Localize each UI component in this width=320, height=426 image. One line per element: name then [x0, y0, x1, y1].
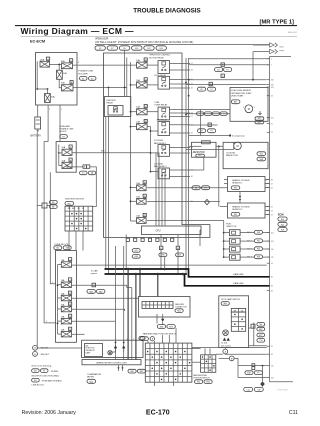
- fuse 10A 51: [136, 58, 147, 68]
- sq 15: [221, 63, 224, 67]
- svg-text:FUSE AND: FUSE AND: [60, 125, 71, 128]
- connector F22: [140, 337, 148, 341]
- label FUEL PUMP RELAY: [155, 102, 168, 107]
- wire ign feed down: [90, 167, 97, 207]
- injector feed stubs: [224, 233, 230, 258]
- svg-text:106: 106: [271, 377, 274, 379]
- svg-text:108: 108: [271, 80, 274, 82]
- svg-text:58: 58: [145, 121, 147, 123]
- E4 block outline: [56, 142, 76, 173]
- svg-text:105: 105: [271, 117, 274, 119]
- svg-text:F7: F7: [211, 89, 213, 91]
- stop lamp bulb: [223, 330, 229, 336]
- svg-text:OFF: OFF: [68, 208, 71, 210]
- stop lamp switch box: [219, 296, 249, 348]
- svg-text:IGNITION SWITCH: IGNITION SWITCH: [65, 199, 84, 201]
- fusible link 140A A: [40, 57, 50, 67]
- svg-text:B45: B45: [234, 102, 237, 104]
- svg-text:14: 14: [69, 293, 71, 295]
- connector E1: [80, 77, 88, 81]
- cooling fan motor symbol: [234, 142, 242, 150]
- svg-text:F1: F1: [43, 370, 45, 372]
- wire cpu drop a: [125, 235, 127, 270]
- svg-text:HEATED OXYGEN: HEATED OXYGEN: [232, 179, 250, 182]
- wire fuel pump out: [170, 110, 191, 117]
- ipdm inner trunk: [186, 58, 189, 274]
- svg-text:To compressor: To compressor: [232, 136, 245, 138]
- svg-text:6: 6: [70, 259, 71, 261]
- wire fuse35 out: [147, 201, 220, 203]
- wire ecm relay in: [147, 84, 158, 86]
- note with A/T: [33, 345, 50, 350]
- ecm relay: [158, 76, 170, 89]
- fuse 10A 57: [136, 105, 147, 115]
- injector feed rail: [223, 221, 225, 258]
- connector 1C: [80, 171, 88, 175]
- resistor box: [192, 142, 217, 157]
- connector B25 B27: [255, 117, 264, 124]
- cpu box: [142, 226, 202, 235]
- connector pair C21 C38: [244, 387, 264, 391]
- label RESISTOR: [193, 152, 205, 154]
- fuse block outline: [56, 251, 77, 343]
- svg-text:54: 54: [271, 210, 273, 212]
- label Next page: [280, 46, 285, 52]
- wire resistor feed: [189, 145, 202, 147]
- throttle control motor relay: [158, 61, 170, 74]
- label NO.2: [247, 241, 251, 243]
- ecm pin ticks: [267, 59, 270, 378]
- svg-text:(INTELLIGENT POWER DISTRIBUTIO: (INTELLIGENT POWER DISTRIBUTION MODULE E…: [95, 40, 193, 44]
- connector F32: [254, 247, 262, 251]
- svg-text:J: J: [70, 147, 71, 149]
- note with M/T: [33, 352, 50, 357]
- svg-text:COMBINATION: COMBINATION: [87, 373, 102, 376]
- note e4: [32, 378, 63, 386]
- svg-text:F30: F30: [257, 232, 260, 234]
- cpu k-line joins: [164, 257, 166, 269]
- wire ho2s1 to ecm: [265, 180, 270, 188]
- svg-text:ON: ON: [77, 208, 79, 210]
- fuel pump motor: [243, 105, 255, 113]
- svg-text:Revision: 2006 January: Revision: 2006 January: [22, 410, 77, 416]
- svg-text:E38: E38: [135, 256, 138, 258]
- connector E4: [60, 135, 68, 139]
- svg-text:HOLDER: HOLDER: [79, 73, 89, 75]
- svg-text:10: 10: [222, 76, 224, 78]
- svg-text:F12: F12: [178, 255, 181, 257]
- svg-text:E9: E9: [123, 48, 125, 50]
- svg-text:To CAN: To CAN: [91, 269, 98, 272]
- label To CAN system: [91, 269, 98, 275]
- svg-text:Refer to the following.: Refer to the following.: [32, 364, 53, 367]
- ho2s1 box: [228, 177, 266, 192]
- connector F37: [231, 212, 240, 216]
- svg-text:Wiring Diagram — ECM —: Wiring Diagram — ECM —: [21, 26, 135, 36]
- svg-text:12: 12: [69, 316, 71, 318]
- wire ho2s2 to ecm: [265, 207, 270, 215]
- svg-text:ECM: ECM: [278, 213, 284, 216]
- svg-text:M63: M63: [89, 291, 93, 293]
- svg-text:C11: C11: [289, 410, 298, 416]
- svg-text:48: 48: [177, 248, 179, 250]
- svg-text:PUMP RELAY: PUMP RELAY: [155, 104, 168, 107]
- wire injector 4 out: [240, 256, 269, 258]
- label To compressor: [232, 136, 245, 138]
- pnp2 grid: [201, 355, 216, 373]
- svg-text:42: 42: [191, 133, 193, 135]
- svg-text:FUEL: FUEL: [155, 102, 161, 104]
- svg-text:46: 46: [191, 88, 193, 90]
- ecm connector E16: [278, 217, 287, 221]
- label OFF ACC ON ST: [68, 207, 84, 210]
- label FUEL LEVEL SENSOR UNIT: [231, 90, 252, 97]
- svg-text:(FUEL PUMP): (FUEL PUMP): [231, 96, 243, 98]
- svg-text:M62: M62: [259, 329, 263, 331]
- wire fuel pump feed2: [189, 109, 230, 111]
- svg-text:45: 45: [160, 248, 162, 250]
- fuse 10A [13]: [61, 302, 72, 312]
- svg-text:E5: E5: [99, 48, 101, 50]
- can drop dlc 2: [157, 274, 159, 297]
- wire battery ground rail: [37, 132, 81, 348]
- fuse 10A [6]: [61, 258, 72, 268]
- svg-text:53: 53: [271, 214, 273, 216]
- wire relay3 to resistor: [189, 157, 204, 170]
- wire out y58.7: [189, 58, 270, 60]
- label To shift lock: [221, 342, 231, 348]
- sq pair bottomright: [252, 364, 255, 370]
- wire ign relay feed 2: [126, 57, 128, 96]
- svg-text:M5: M5: [52, 206, 55, 208]
- svg-text:UNIFIED METER CONTROL UNIT: UNIFIED METER CONTROL UNIT: [96, 362, 128, 364]
- label COOLING FAN MOTOR: [226, 152, 238, 157]
- svg-text:DATA LINE: DATA LINE: [233, 273, 244, 276]
- wire holder down x60: [59, 105, 61, 142]
- ho2s link: [239, 192, 241, 204]
- svg-text:E4: E4: [62, 136, 64, 138]
- svg-text:25: 25: [271, 123, 273, 125]
- below cpu connectors b: [159, 246, 167, 256]
- relay shared feed rail: [150, 127, 158, 173]
- svg-text:: With A/T: : With A/T: [40, 347, 50, 350]
- junction fuse rail: [130, 84, 132, 202]
- fuse 15A 35: [136, 194, 146, 204]
- svg-text:M4: M4: [260, 324, 263, 326]
- fusible link 80A D: [61, 59, 73, 69]
- svg-text:POSITION SWITCH: POSITION SWITCH: [193, 377, 210, 379]
- can junction dots: [127, 268, 184, 276]
- ecm trunk top stub: [270, 56, 292, 58]
- cooling fan relay 3: [158, 168, 170, 179]
- wire compressor feed: [200, 110, 202, 136]
- svg-text:M62: M62: [99, 291, 103, 293]
- wire bottom 115: [238, 365, 267, 367]
- wire cpu drop c: [177, 235, 179, 275]
- wire stop lamp right: [249, 323, 267, 346]
- svg-text:TROUBLE DIAGNOSIS: TROUBLE DIAGNOSIS: [133, 7, 201, 14]
- wire throttle relay in: [147, 64, 158, 66]
- ignition switch drops: [69, 231, 83, 251]
- connector F40: [195, 380, 203, 384]
- svg-text:E10: E10: [135, 48, 138, 50]
- svg-text:E6: E6: [195, 188, 197, 190]
- wire cpu right: [200, 229, 201, 231]
- fuel pump ground: [258, 111, 262, 115]
- mil lamp: [108, 351, 112, 355]
- svg-text:21: 21: [127, 339, 129, 341]
- label COOLING FAN RELAY 1: [154, 140, 167, 145]
- svg-text:E4: E4: [34, 380, 36, 382]
- label IPDM E/R: [95, 36, 193, 44]
- connector M50s: [221, 302, 229, 306]
- svg-text:1: 1: [243, 107, 244, 109]
- svg-text:C21: C21: [247, 389, 250, 391]
- junction fan wire: [218, 145, 220, 147]
- label STOP LAMP SWITCH: [221, 298, 240, 301]
- wire fan out: [170, 148, 191, 177]
- junction E4 rail: [58, 152, 60, 154]
- pin 4 label: [78, 62, 79, 64]
- wire out y84.5: [186, 84, 267, 86]
- svg-text:C38: C38: [257, 389, 260, 391]
- ipdm fuse rail: [130, 62, 132, 221]
- wire 140A to 80A: [50, 63, 62, 65]
- svg-text:FUSIBLE LINK: FUSIBLE LINK: [60, 129, 74, 131]
- ipdm pin numbers: [191, 63, 193, 203]
- wire next page 1: [253, 44, 270, 46]
- below cpu connectors c: [176, 246, 184, 256]
- svg-text:BATTERY: BATTERY: [31, 134, 42, 137]
- label MIL: [86, 345, 96, 354]
- svg-text:M66: M66: [160, 326, 164, 328]
- wire fp relay in: [147, 111, 158, 113]
- diamond joint: [205, 199, 210, 204]
- svg-text:COOLING: COOLING: [154, 140, 164, 142]
- meter feed wires: [116, 246, 124, 360]
- footer sheet: [289, 410, 298, 416]
- label IGNITION RELAY: [107, 100, 116, 105]
- wire stop lamp right2: [249, 327, 251, 329]
- sq connector 3: [92, 283, 96, 287]
- svg-text:11: 11: [69, 329, 71, 331]
- ignition relay: [108, 106, 123, 116]
- fusible link holder outline: [36, 53, 78, 106]
- fuse 50A H: [62, 158, 73, 168]
- label FUSIBLE LINK HOLDER: [79, 71, 94, 76]
- wire fuse37 out: [147, 220, 224, 222]
- wire circleM: [219, 358, 238, 365]
- svg-text:[MR TYPE 1]: [MR TYPE 1]: [260, 19, 295, 25]
- wire holder left rail: [37, 61, 47, 89]
- battery: [35, 117, 41, 132]
- svg-text:94: 94: [271, 263, 273, 265]
- label COMBINATION METER: [87, 373, 102, 379]
- svg-text:F1: F1: [257, 373, 259, 375]
- sq connector E pair: [83, 165, 90, 169]
- label THROTTLE CONTROL MOTOR RELAY: [149, 55, 171, 60]
- label DATA LINE 1: [233, 273, 244, 276]
- wire lower fuse stubs: [131, 188, 137, 222]
- label DATA LINE 2: [233, 282, 244, 285]
- label IGNITION SWITCH: [65, 199, 84, 201]
- stop lamp ovals: [257, 323, 265, 343]
- footer revision: [22, 410, 77, 416]
- wire next2 drop: [252, 52, 254, 81]
- svg-text:110: 110: [271, 249, 274, 251]
- circle M bottomright: [229, 356, 234, 361]
- injector NO.3: [229, 246, 240, 252]
- wire ign relay feed 1: [124, 51, 126, 97]
- cooling fan relay 1: [158, 145, 170, 157]
- svg-text:F33: F33: [257, 257, 260, 259]
- svg-text:29: 29: [191, 201, 193, 203]
- sq 40: [209, 82, 212, 86]
- svg-text:7: 7: [70, 280, 71, 282]
- connector M15: [65, 202, 74, 206]
- svg-text:86: 86: [271, 277, 273, 279]
- page title: [133, 7, 201, 14]
- wire cpu drop b: [160, 235, 162, 270]
- svg-text:E2: E2: [91, 78, 93, 80]
- junction ign feeds: [108, 87, 126, 89]
- svg-text:21: 21: [271, 132, 273, 134]
- ecm connector F15: [278, 222, 287, 226]
- stop lamp arrows: [223, 338, 230, 341]
- connector M pair: [49, 200, 57, 208]
- wire 50A to 30A: [59, 79, 61, 88]
- connector M22: [175, 309, 183, 313]
- svg-text:E38: E38: [247, 373, 250, 375]
- label wire W/R: [101, 150, 105, 152]
- svg-text:E12: E12: [135, 250, 138, 252]
- svg-text:lock system: lock system: [221, 344, 231, 347]
- injector NO.2: [229, 238, 240, 244]
- svg-text:57: 57: [191, 116, 193, 118]
- connector M1 fb: [54, 246, 62, 250]
- wire E4 rail: [59, 145, 62, 166]
- umcu below dots: [118, 365, 124, 371]
- wire holder down x48: [47, 105, 49, 142]
- pin 1 fuse block: [52, 282, 53, 284]
- svg-text:Next: Next: [280, 46, 285, 49]
- subheading EC-ECM: [30, 39, 45, 43]
- svg-text:E12: E12: [147, 48, 150, 50]
- pin labels under holder: [49, 109, 62, 111]
- fuse block outputs: [72, 265, 267, 334]
- wire out y64.8: [189, 64, 270, 66]
- wire next page 2: [253, 51, 270, 53]
- connector pair E9 F7: [198, 87, 216, 91]
- svg-text:2: 2: [49, 109, 50, 111]
- pnp bottom drops: [155, 382, 174, 386]
- fuse 10A 36: [136, 181, 146, 191]
- connector E21: [257, 152, 266, 156]
- svg-text:HEATED OXYGEN: HEATED OXYGEN: [232, 206, 250, 209]
- svg-text:2: 2: [46, 321, 47, 323]
- svg-text:B27: B27: [258, 122, 261, 124]
- pin 2 fuse block: [46, 321, 47, 323]
- svg-text:40: 40: [191, 176, 193, 178]
- svg-text:M2: M2: [66, 248, 69, 250]
- sender oval row: [197, 112, 228, 116]
- svg-text:M70: M70: [169, 326, 173, 328]
- svg-text:52: 52: [145, 79, 147, 81]
- dlc pin grid: [142, 302, 173, 309]
- pnp drops top: [148, 328, 176, 343]
- svg-text:CONNECTOR: CONNECTOR: [175, 307, 187, 309]
- svg-text:: With M/T: : With M/T: [40, 353, 50, 356]
- ignition switch grid: [65, 206, 93, 231]
- connector E2: [89, 77, 97, 81]
- wire ac out: [170, 125, 191, 133]
- connector F35: [231, 186, 240, 190]
- svg-text:EC-ECM: EC-ECM: [30, 39, 45, 43]
- meter lamp wires: [110, 348, 124, 355]
- below cpu connectors a: [132, 249, 140, 259]
- svg-text:2: 2: [271, 65, 272, 67]
- fusible link 30A B: [61, 81, 73, 91]
- svg-text:E21: E21: [260, 153, 263, 155]
- svg-text:MULTIPLE JUNCTION (SMJ): MULTIPLE JUNCTION (SMJ): [32, 375, 60, 377]
- can to meter 2: [135, 274, 137, 360]
- fuse 50A J: [62, 145, 73, 155]
- label FUSE AND FUSIBLE LINK BLOCK: [60, 125, 74, 133]
- svg-text:140A: 140A: [40, 58, 45, 61]
- svg-text:F40: F40: [197, 382, 200, 384]
- svg-text:M: M: [237, 145, 239, 148]
- label UNIFIED METER CONTROL UNIT: [96, 362, 128, 364]
- svg-text:109: 109: [271, 87, 274, 89]
- svg-text:UNIT AND FUEL PUMP: UNIT AND FUEL PUMP: [231, 92, 252, 95]
- fuse 10A [7]: [61, 278, 72, 288]
- svg-text:56: 56: [271, 187, 273, 189]
- svg-text:34: 34: [271, 96, 273, 98]
- ipdm outline: [104, 53, 210, 237]
- svg-text:13: 13: [69, 304, 71, 306]
- note smj: [32, 369, 60, 378]
- svg-text:PARK/NEUTRAL POSITION SWITCH: PARK/NEUTRAL POSITION SWITCH: [143, 333, 177, 336]
- svg-text:M32: M32: [140, 371, 144, 373]
- meter junction dots: [115, 342, 125, 344]
- wire 50A H out: [67, 167, 83, 169]
- svg-text:55: 55: [271, 206, 273, 208]
- fuse 15A [11]: [61, 327, 72, 337]
- svg-text:: FUSE AND FUSIBLE: : FUSE AND FUSIBLE: [41, 380, 62, 383]
- wire ho2s1 left pins: [224, 180, 228, 184]
- label COOLING FAN RELAY 3: [154, 163, 167, 168]
- connector M63 M62: [87, 290, 105, 294]
- label NO.3: [247, 249, 251, 251]
- bottom diamond: [260, 366, 265, 387]
- svg-text:FUEL LEVEL SENSOR: FUEL LEVEL SENSOR: [231, 90, 251, 92]
- svg-text:system: system: [91, 272, 98, 275]
- fuse block left rail: [57, 265, 62, 335]
- label HEATED OXYGEN SENSOR 1: [232, 179, 250, 185]
- fuse 10A 58: [136, 119, 147, 129]
- svg-text:C10: C10: [259, 340, 262, 342]
- wire E4 fuse J stub: [59, 152, 62, 154]
- svg-text:115: 115: [271, 365, 274, 367]
- junction mid feed: [58, 64, 60, 66]
- wire ign box drop: [107, 88, 109, 97]
- connector M2 fb: [63, 246, 71, 250]
- connector M20: [204, 380, 212, 384]
- svg-text:: SUPER: : SUPER: [50, 371, 59, 373]
- wire ac relay in: [147, 126, 150, 128]
- wire pnp2 top: [205, 348, 210, 354]
- svg-text:CPU: CPU: [156, 231, 161, 233]
